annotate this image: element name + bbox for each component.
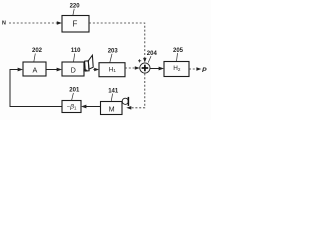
- ref label 141 with leader: [108, 88, 119, 101]
- feedback wire: -b1 output left, up, into A (arrowhead): [10, 68, 62, 107]
- wire H1 to summer (dashed, arrowhead): [125, 66, 140, 70]
- summing node 204 (circle with plus): [140, 63, 150, 73]
- wire summer to H2 (arrowhead): [150, 67, 164, 71]
- svg-text:205: 205: [173, 48, 184, 54]
- block -B1 (feedback filter): [62, 101, 81, 113]
- block D (driver/DAC): [62, 62, 84, 76]
- block F (filter): [62, 16, 89, 33]
- ref label 202 with leader: [32, 48, 43, 62]
- wire N to F (dashed, arrowhead): [9, 21, 62, 25]
- svg-text:N: N: [2, 20, 6, 26]
- svg-text:H2: H2: [173, 65, 181, 72]
- wire speaker to H1 (dashed, arrowhead): [93, 68, 99, 72]
- microphone icon (circle + diaphragm bar): [122, 97, 128, 106]
- block M (microphone amp): [101, 102, 123, 115]
- plus sign at summer upper-left input: [138, 59, 141, 62]
- ref label 220 with leader: [70, 4, 81, 16]
- svg-text:A: A: [33, 65, 38, 74]
- wire M to -b1 (arrowhead): [81, 105, 101, 109]
- svg-text:−β1: −β1: [67, 104, 77, 111]
- ref label 201 with leader: [69, 88, 80, 101]
- svg-text:220: 220: [70, 4, 81, 10]
- ref label 205 with leader: [173, 48, 184, 62]
- svg-text:P: P: [202, 67, 207, 74]
- wire A to D (arrowhead): [46, 68, 62, 72]
- ref label 203 with leader: [108, 49, 119, 63]
- svg-text:201: 201: [69, 88, 80, 94]
- svg-text:M: M: [109, 105, 115, 114]
- svg-text:110: 110: [71, 48, 81, 54]
- block H1 (acoustic path): [99, 63, 125, 77]
- svg-text:D: D: [71, 65, 76, 74]
- svg-text:204: 204: [147, 51, 158, 57]
- svg-text:203: 203: [108, 49, 119, 55]
- wire F to summer 204 (dashed, corner, down arrowhead): [89, 23, 147, 63]
- wire summer to microphone (dashed down then left, arrowhead): [126, 73, 145, 109]
- svg-text:H1: H1: [109, 66, 117, 73]
- block A (amplifier): [23, 62, 46, 76]
- wire D to speaker (tiny arrowhead): [83, 68, 87, 71]
- svg-text:141: 141: [108, 88, 119, 94]
- svg-text:F: F: [72, 19, 77, 28]
- ref label 110 with leader: [71, 48, 81, 62]
- svg-text:202: 202: [32, 48, 43, 54]
- block H2 (ear transfer): [164, 62, 189, 77]
- ref label 204 with leader: [147, 51, 158, 63]
- speaker 203 icon (driver + horn): [85, 55, 94, 71]
- wire H2 to P (dashed, arrowhead): [189, 67, 201, 71]
